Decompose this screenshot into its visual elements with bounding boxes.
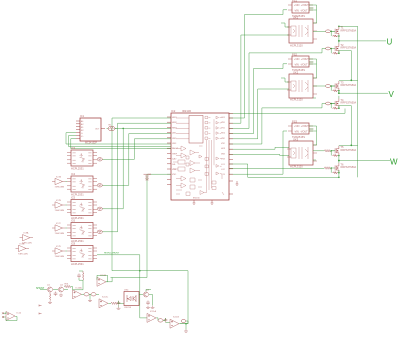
op-amp U1 outline box [171,113,229,200]
svg-text:IC7C: IC7C [56,223,61,225]
svg-text:IC7A: IC7A [56,176,61,179]
svg-text:OUT: OUT [95,128,100,130]
svg-text:ITRIP: ITRIP [172,153,178,155]
resistor R36 [111,302,117,304]
resistor R12 pull-up [97,184,102,187]
svg-text:OK2: OK2 [293,70,299,74]
wire phase W output [339,160,390,162]
svg-text:V+: V+ [81,136,84,138]
svg-text:Q3: Q3 [146,290,150,292]
svg-text:IC3: IC3 [71,146,76,150]
transistor T2 low side [330,41,356,54]
IC1 pin stubs [76,121,105,139]
svg-text:IR2130: IR2130 [182,109,191,113]
wire IC to W dcdc [229,131,287,174]
transistor T1 high side [330,26,356,41]
svg-text:IC10A: IC10A [76,286,83,289]
svg-text:FAULT: FAULT [172,147,179,150]
ground q3 [146,306,150,309]
mid gates [190,161,200,166]
buffer IC7D [52,246,66,258]
capacitor C14 [146,301,150,305]
small rc block [178,160,185,164]
wire U opto anode stub [281,23,289,27]
svg-text:OK1: OK1 [293,15,299,19]
optocoupler IC3 [67,150,97,166]
opamp IC11A [147,310,156,323]
wire opamp spare fb [3,312,18,321]
wire buffer to opto IC5 [66,204,68,206]
wire phase V output [339,92,388,94]
optocoupler IC5 [67,200,97,216]
wire IC to V opto [229,89,289,139]
wire IC to V dcdc [229,64,287,134]
svg-text:IC9B: IC9B [20,243,25,245]
wire opamp3 out [108,301,124,307]
svg-text:VS1: VS1 [221,127,226,129]
gate resistor R23 [326,85,331,88]
channel V group [287,53,356,110]
gate row4 [205,132,210,134]
transistor Q1 [47,285,53,293]
svg-text:U: U [387,38,393,47]
buffer IC7B [52,200,66,212]
capacitor C11 [54,292,58,296]
svg-text:IRFPS37N50A: IRFPS37N50A [340,166,356,169]
svg-text:+VIN +VOUT: +VIN +VOUT [294,4,309,7]
transistor Q2 [59,285,64,293]
junction dots right side [338,26,352,179]
resistor R37 [158,319,163,322]
svg-text:HCPL3120: HCPL3120 [290,44,303,48]
gate resistor R26 low [324,167,330,169]
wire diode branch down [112,174,171,277]
wire bottom vertical to opamp [140,271,147,318]
optocoupler IC8 [67,246,97,262]
connector J1 marks [39,305,42,315]
svg-text:LO1: LO1 [221,164,226,166]
svg-text:Q1: Q1 [47,285,51,287]
inner logic artwork [173,116,224,195]
svg-text:VS2: VS2 [221,143,226,145]
IC bottom pin symbols [193,200,214,204]
svg-text:+VIN +VOUT: +VIN +VOUT [294,58,309,61]
wire circle resistor to IC [115,127,171,129]
wire top IC wrap w1 [66,133,171,144]
diode D1 with ground at IC left [144,174,153,180]
wire V low source to W high drain [339,106,351,146]
svg-text:HO1: HO1 [221,117,226,119]
svg-text:IRFPS37N50A: IRFPS37N50A [340,102,356,105]
transistor T6 low side [330,161,356,174]
resistor R38 [181,320,185,323]
left opto rows [16,146,120,266]
resistor R32 + ground under Q1 [49,293,51,301]
IC left pin stubs [167,117,171,185]
svg-text:IRFPS37N50A: IRFPS37N50A [340,47,356,50]
svg-text:VB1: VB1 [221,122,226,124]
svg-text:OK3: OK3 [293,137,299,141]
svg-text:IR2130: IR2130 [193,198,200,200]
wire row1 resistor join [96,158,98,160]
wire opamp1 out [82,294,100,299]
svg-text:IC8: IC8 [71,242,76,246]
wire opto to q3 [139,290,153,306]
inner level shifter block [189,116,203,144]
spare buffer IC9B [16,243,30,255]
transistor T3 high side [330,80,356,93]
wire opamp2 fb [97,275,112,282]
opamp IC12 spare [6,312,22,321]
wire IC to W return [229,164,248,177]
gate row3 [205,127,210,129]
svg-text:IC12: IC12 [17,313,22,315]
wire IC to U opto [229,35,289,123]
resistor R13 pull-up [97,207,102,210]
svg-text:IC4: IC4 [71,172,76,176]
wire opto out to gate resistor W [313,150,335,152]
resistor R14 pull-up [97,230,102,233]
svg-text:VS3: VS3 [221,159,226,161]
svg-text:74HC08N: 74HC08N [55,233,65,235]
controller IC1 box [80,118,101,141]
wire dcdc out to opto vcc [309,5,317,23]
wire row3 resistor join [96,208,98,210]
optocoupler OK4 [124,290,139,309]
wire IC to W opto in2 [229,154,289,155]
ground opto [151,306,155,309]
wire opto out to gate resistor V [313,85,335,87]
wire U low source to V high drain [339,51,351,81]
ground c13 [117,307,121,310]
svg-text:IC6: IC6 [71,219,76,223]
transistor T5 high side [330,145,356,160]
wire row3 output to IC [102,128,123,208]
resistor R1 (circle style) [107,124,117,131]
svg-text:Q2: Q2 [60,285,64,287]
wire opamp5 out [179,321,188,330]
capacitor C13 [117,301,121,305]
dc/dc converter PS2 [288,56,313,67]
wire dcdc out to opto vcc V [309,59,317,78]
svg-text:IC1: IC1 [80,114,85,118]
channel W group [287,120,356,174]
wire row4 resistor join [96,231,98,233]
wire opto out to gate resistor [313,30,335,32]
svg-text:A2: A2 [81,123,84,126]
svg-text:IRFPS37N50A: IRFPS37N50A [340,29,356,32]
resistor R34 [91,293,96,296]
svg-text:B1: B1 [81,127,84,129]
wire W high drain to bus [339,144,358,146]
svg-text:OK4: OK4 [124,290,129,292]
svg-text:-VIN -VOUT: -VIN -VOUT [294,64,308,67]
svg-text:HCPL2531: HCPL2531 [71,262,84,266]
transistor T4 low side [330,96,356,109]
wire row2 resistor join [96,184,98,186]
wire buffer to opto IC4 [66,181,68,183]
pin marks spare [2,312,4,318]
wire phase U output [339,40,386,42]
svg-text:PS3: PS3 [292,120,297,124]
svg-text:74HC14N: 74HC14N [18,253,28,255]
ground under Q2 [59,294,63,297]
svg-text:VSS: VSS [172,169,177,171]
svg-text:+VIN +VOUT: +VIN +VOUT [294,125,309,128]
svg-text:74HC08N: 74HC08N [55,187,65,189]
resistor R11 pull-up [97,158,102,161]
svg-text:HO2: HO2 [221,133,226,135]
wire V high drain to bus [339,79,358,81]
opamp IC11B [170,317,179,329]
opto gate driver OK2 [287,74,317,98]
wire row5 out [97,254,117,256]
svg-text:HCPL3120: HCPL3120 [290,165,303,169]
svg-text:IC11A: IC11A [150,310,156,313]
svg-text:IC5: IC5 [71,196,76,200]
IC right pin stubs [229,113,233,194]
capacitor C12 [77,274,81,278]
wire top IC wrap w2 [68,136,171,147]
svg-text:HCPL3120: HCPL3120 [290,98,303,102]
optocoupler IC6 [67,223,97,239]
wire opamp4 out [156,318,170,323]
wire row5 label to bottom chain [117,255,188,324]
wire IC to U low gate [229,49,326,129]
ground r38 [184,330,188,333]
svg-text:B2: B2 [81,130,84,132]
opto gate driver OK1 [287,19,317,43]
wire dcdc out to opto vcc W [309,126,317,145]
svg-text:IRFPS37N50A: IRFPS37N50A [340,149,356,152]
dc/dc converter PS1 [288,2,313,13]
gate resistor R25 [324,150,330,152]
svg-text:MC34152P: MC34152P [85,142,97,145]
channel U group [287,0,356,54]
opamp IC10A [73,286,83,299]
gate row5 [205,137,210,139]
wire outer vertical to bottom chain [112,118,171,271]
buffer IC7C [52,223,66,235]
svg-text:A1: A1 [81,120,84,123]
wire r35 link [73,271,84,290]
wire opto out low W stub [313,159,316,161]
transistor Q3 [144,290,150,298]
opto gate driver OK3 [287,141,317,165]
svg-text:LIN3: LIN3 [172,143,177,145]
svg-text:PS1: PS1 [292,0,297,3]
svg-text:HO3: HO3 [221,148,226,150]
svg-text:R31: R31 [65,284,70,286]
dc/dc converter PS3 [288,123,313,134]
wire shunt return [229,109,345,114]
resistor R33 [84,293,89,296]
svg-text:VSO: VSO [172,174,177,176]
svg-text:HIGH-I-SHUNT: HIGH-I-SHUNT [104,253,120,255]
svg-text:74HC08N: 74HC08N [55,256,65,258]
internal bus verticals [207,119,215,192]
svg-text:IC7D: IC7D [56,246,61,248]
opamp IC10C [99,296,109,308]
junction dot out [185,323,187,325]
wire buffer to opto IC6 [66,227,68,229]
svg-text:D1: D1 [149,174,153,176]
svg-text:IRFPS37N50A: IRFPS37N50A [340,84,356,87]
wire buffer to opto IC8 [66,250,68,252]
ground mid [88,299,92,302]
svg-text:LO3: LO3 [221,174,226,176]
junction dots bundle [122,128,140,272]
wire IC to U dcdc [229,10,287,118]
svg-text:LO2: LO2 [221,169,226,171]
capacitor C near IC bottom [236,181,239,185]
svg-text:IC10C: IC10C [102,296,109,298]
gate resistor R22 low [326,47,331,50]
buffer IC7A [52,176,66,189]
svg-text:VB2: VB2 [221,138,226,140]
gate resistor R21 [326,30,331,33]
wire V opto anode stub [281,78,289,82]
gate row1 [205,116,210,118]
gate row2 [205,121,210,123]
wire row4 output to IC [102,123,171,232]
svg-text:W: W [390,158,398,167]
svg-text:G: G [81,133,83,135]
power bus wire (drain bus) [357,26,359,177]
bottom cluster [190,178,195,189]
svg-text:-VIN -VOUT: -VIN -VOUT [294,131,308,134]
wire row1 output to IC [102,139,171,160]
svg-text:HCPL2531: HCPL2531 [71,192,84,196]
opamp IC10B [97,275,107,287]
IC pin names tiny [172,117,226,176]
svg-text:PS2: PS2 [292,53,297,57]
wire IC to V low gate [229,104,326,145]
svg-text:IC7B: IC7B [56,200,61,202]
resistor R31 [65,284,71,288]
svg-text:IC2: IC2 [171,109,176,113]
spare buffer IC9A [20,232,34,245]
wire opto out low V stub [313,98,335,104]
svg-text:IC9A: IC9A [24,232,29,235]
wire top IC wrap w3 [71,139,171,149]
svg-text:IC11B: IC11B [173,317,179,319]
wire W low source return [248,173,339,178]
gate resistor R24 low [326,102,331,105]
wire row2 output to IC [102,134,171,186]
wire U high drain to bus [339,25,358,27]
svg-text:74HC08N: 74HC08N [55,210,65,212]
svg-text:V: V [389,90,395,99]
wire IC to W low gate [229,167,324,169]
svg-text:CAO: CAO [172,158,177,161]
svg-text:HCPL2531: HCPL2531 [71,166,84,170]
svg-text:CA-: CA- [172,163,176,166]
capacitor C15 [164,318,168,322]
svg-text:-VIN -VOUT: -VIN -VOUT [294,10,308,13]
wire shunt chain [40,287,73,290]
wire IC to W opto in1 [229,147,289,149]
svg-text:CNY65: CNY65 [124,307,132,309]
svg-text:VB3: VB3 [221,153,226,155]
resistor R35 vertical above opamp [82,271,84,280]
comparator cluster [181,146,186,158]
svg-text:SHUNT: SHUNT [36,287,45,290]
right lower gate column [216,157,222,160]
optocoupler IC4 [67,176,97,192]
